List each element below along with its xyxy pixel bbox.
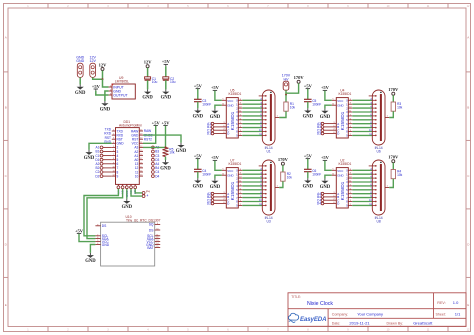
wire C2 to ground	[165, 80, 167, 89]
svg-text:GND: GND	[84, 156, 95, 161]
power flag +5V at U5	[211, 85, 220, 92]
ground flag below R5	[160, 160, 171, 171]
net labels DD1 left inputs	[95, 146, 99, 179]
wire +5V to RTC VCC	[79, 234, 95, 242]
power flag +5V at U2	[321, 155, 330, 162]
wire +5V to C5	[307, 89, 309, 99]
wires U7 outputs to U3	[242, 170, 262, 205]
capacitor C5 100nF	[304, 99, 321, 106]
pin pads U5 inputs	[211, 122, 214, 135]
pin pads DD1 right	[152, 146, 155, 178]
net labels U2 inputs	[317, 192, 321, 206]
svg-text:+5V: +5V	[161, 120, 170, 125]
svg-text:8: 8	[113, 158, 114, 160]
svg-text:14: 14	[156, 243, 158, 245]
svg-text:1.0: 1.0	[453, 300, 459, 305]
svg-text:170V: 170V	[388, 155, 399, 160]
svg-text:D2: D2	[207, 202, 211, 206]
svg-text:20: 20	[140, 146, 142, 148]
svg-text:2019-11-21: 2019-11-21	[349, 321, 370, 326]
svg-text:REV:: REV:	[437, 301, 445, 305]
svg-text:+5V: +5V	[162, 59, 171, 64]
svg-text:GND: GND	[122, 205, 133, 210]
svg-text:10: 10	[113, 166, 115, 168]
svg-text:K155ID1: K155ID1	[339, 162, 352, 166]
ground flag below C2	[161, 89, 172, 100]
svg-text:D4: D4	[155, 174, 159, 178]
svg-text:+5V: +5V	[304, 83, 313, 88]
pin pads U2 inputs	[321, 192, 324, 205]
net flag 170V above R4	[388, 155, 399, 163]
svg-text:D2: D2	[95, 174, 99, 178]
svg-text:7: 7	[97, 234, 98, 236]
wire 12V to C1	[147, 68, 149, 77]
svg-text:13: 13	[140, 175, 142, 177]
junction 170V node	[285, 94, 287, 96]
wire +5V to U2 VCC	[325, 161, 332, 171]
svg-text:GND: GND	[161, 96, 172, 101]
svg-text:K155ID1: K155ID1	[229, 162, 242, 166]
wire +5V to U7 VCC	[215, 161, 222, 171]
svg-text:4: 4	[113, 142, 114, 144]
svg-text:9: 9	[117, 174, 119, 178]
svg-text:23: 23	[140, 134, 142, 136]
svg-text:GND: GND	[303, 115, 314, 120]
svg-text:+5V: +5V	[152, 120, 161, 125]
svg-text:15: 15	[156, 246, 158, 248]
svg-text:VCC: VCC	[337, 99, 343, 103]
net labels DD1 right	[155, 146, 159, 179]
svg-text:+5V: +5V	[321, 85, 330, 90]
svg-text:U1: U1	[266, 150, 270, 154]
svg-text:9: 9	[113, 162, 114, 164]
power flag +5V above C4	[194, 153, 203, 160]
svg-text:8: 8	[97, 224, 98, 226]
junction R5 top	[165, 146, 167, 148]
wire C3 to ground	[197, 102, 199, 109]
wire R3 to U6 anode	[389, 111, 393, 117]
connector P2 12V input	[89, 56, 96, 78]
svg-text:GND: GND	[337, 174, 343, 178]
svg-text:170V: 170V	[278, 157, 289, 162]
svg-text:+5V: +5V	[92, 84, 101, 89]
wire C1 to ground	[147, 80, 149, 89]
net flag 170V above R3	[388, 87, 399, 95]
svg-text:+5V: +5V	[194, 83, 203, 88]
wire DD1 GND2 to ground	[143, 135, 181, 143]
svg-text:4: 4	[97, 243, 98, 245]
net labels DD1 top left	[104, 128, 112, 144]
svg-text:100nF: 100nF	[312, 172, 321, 176]
power flag +5V at U9 output	[92, 84, 101, 91]
wire +5V down to R5	[165, 126, 167, 148]
capacitor C6 100nF	[304, 169, 321, 176]
svg-text:2: 2	[113, 134, 114, 136]
svg-text:GND: GND	[193, 115, 204, 120]
connector P4 buttons	[142, 190, 150, 198]
wire DD1 A3 to R5 top	[143, 146, 166, 148]
wires U2 outputs to U8	[352, 170, 372, 205]
wire R2 to U3 anode	[279, 181, 283, 187]
svg-text:U6: U6	[376, 150, 380, 154]
svg-text:10k: 10k	[397, 106, 403, 110]
svg-text:E: E	[467, 303, 469, 307]
wire +5V to C4	[197, 159, 199, 169]
svg-text:D4: D4	[317, 202, 321, 206]
labels U6	[375, 146, 383, 154]
svg-text:15: 15	[140, 166, 142, 168]
net labels U4 inputs	[317, 122, 321, 136]
wire +5V to C6	[307, 159, 309, 169]
power flag +5V to R5	[161, 120, 170, 127]
wire node to R1	[285, 95, 287, 102]
nixie tube U1 IN-14	[259, 90, 280, 145]
wire 12V node to U9 INPUT	[103, 79, 109, 87]
wire C4 to ground	[197, 172, 199, 179]
resistor R1 10k	[284, 102, 296, 111]
rtc U10 Tiny_i2c_RTC_DS1307	[95, 215, 160, 266]
svg-text:GND: GND	[320, 185, 331, 190]
wire U4 GND down	[325, 105, 332, 108]
svg-text:170V: 170V	[388, 87, 399, 92]
svg-text:14: 14	[140, 171, 142, 173]
ground flag below C1	[142, 89, 153, 100]
svg-text:10u: 10u	[170, 80, 176, 84]
ground flag below U2 GND	[320, 179, 331, 190]
svg-text:1: 1	[113, 130, 114, 132]
svg-text:10u: 10u	[152, 80, 158, 84]
svg-text:+5V: +5V	[211, 155, 220, 160]
driver U2 K155ID1	[324, 158, 352, 208]
svg-text:GND: GND	[85, 259, 96, 264]
wire R4 to U8 anode	[389, 179, 393, 188]
wire +5V to C3	[197, 89, 199, 99]
svg-text:12V: 12V	[99, 62, 108, 67]
capacitor C2 10u	[163, 77, 176, 84]
wire +5V to U4 VCC	[325, 91, 332, 101]
labels U1	[265, 146, 273, 154]
svg-text:10k: 10k	[290, 106, 296, 110]
pin pads U7 inputs	[211, 192, 214, 205]
svg-text:18: 18	[140, 154, 142, 156]
svg-text:Your Company: Your Company	[357, 311, 383, 316]
wire 170V to R4	[392, 163, 394, 170]
wire P1 to ground	[79, 77, 81, 84]
wire 12V flag down to node	[102, 71, 104, 80]
ground flag below U4 GND	[320, 109, 331, 120]
svg-text:+5V: +5V	[211, 85, 220, 90]
svg-text:16: 16	[140, 162, 142, 164]
svg-text:EasyEDA: EasyEDA	[300, 316, 326, 323]
svg-text:Nixie Clock: Nixie Clock	[307, 301, 333, 307]
power flag +5V above C3	[194, 83, 203, 90]
svg-text:D: D	[337, 132, 339, 136]
wire P4 pin2	[131, 189, 142, 196]
svg-text:GND: GND	[210, 185, 221, 190]
net flag 170V above R2	[278, 157, 289, 165]
net labels U5 inputs	[207, 122, 211, 136]
svg-text:10k: 10k	[169, 151, 175, 155]
svg-text:K155ID1: K155ID1	[339, 92, 352, 96]
pin pads U4 inputs	[321, 122, 324, 135]
svg-text:D: D	[227, 202, 229, 206]
svg-text:+5V: +5V	[194, 153, 203, 158]
power flag +5V above C2	[162, 59, 171, 66]
svg-text:DS: DS	[102, 224, 107, 228]
svg-text:9: 9	[157, 223, 158, 225]
svg-text:5: 5	[97, 240, 98, 242]
driver U5 K155ID1	[214, 88, 242, 138]
wire RTC GND	[90, 245, 95, 253]
svg-text:BAT: BAT	[147, 246, 153, 250]
svg-text:6: 6	[113, 150, 114, 152]
wire U7 GND down	[215, 175, 222, 178]
svg-text:VCC: VCC	[227, 99, 233, 103]
power flag +5V above C6	[304, 153, 313, 160]
svg-text:3: 3	[113, 138, 114, 140]
svg-text:TITLE:: TITLE:	[291, 295, 301, 299]
wire DD1 A5 to RTC SCL	[87, 189, 123, 239]
svg-text:B: B	[467, 106, 469, 110]
company text	[332, 311, 383, 316]
svg-text:GND: GND	[227, 174, 233, 178]
labels U8	[375, 216, 383, 224]
wire DD1 GND left	[89, 143, 112, 150]
pin pads DD1 bottom	[117, 186, 137, 189]
ground flag below U9	[100, 101, 111, 112]
wire +5V to U5 VCC	[215, 91, 222, 101]
svg-text:GND: GND	[160, 166, 171, 171]
svg-text:GND: GND	[176, 149, 187, 154]
power flag +5V at U4	[321, 85, 330, 92]
svg-text:A: A	[5, 36, 7, 40]
svg-text:10: 10	[156, 229, 158, 231]
svg-text:GND: GND	[320, 115, 331, 120]
svg-text:K155ID1: K155ID1	[229, 92, 242, 96]
svg-text:12V: 12V	[144, 60, 153, 65]
ground flag below C5	[303, 108, 314, 119]
svg-text:+5V: +5V	[321, 155, 330, 160]
resistor R2 10k	[281, 172, 293, 181]
svg-text:100nF: 100nF	[202, 172, 211, 176]
svg-text:GND: GND	[227, 104, 233, 108]
svg-text:Sheet:: Sheet:	[436, 312, 446, 316]
svg-text:U8: U8	[376, 220, 380, 224]
ground flag below P1	[75, 85, 86, 96]
ground flag below C6	[303, 178, 314, 189]
svg-text:GND: GND	[142, 96, 153, 101]
wire +5V to C2	[165, 66, 167, 77]
ground flag below U7 GND	[210, 179, 221, 190]
nixie tube U3 IN-14	[259, 160, 280, 215]
labels U3	[265, 216, 273, 224]
svg-text:LM7805L: LM7805L	[115, 80, 129, 84]
net labels DD1 top right	[144, 129, 153, 141]
ground flag below DD1	[122, 199, 133, 210]
regulator U9 LM7805L	[109, 76, 136, 99]
svg-text:GND: GND	[337, 104, 343, 108]
svg-text:A: A	[467, 36, 469, 40]
svg-text:GND: GND	[193, 185, 204, 190]
junction node 12V	[102, 78, 104, 80]
title block	[288, 293, 466, 327]
net flag 12V at input node	[99, 62, 108, 70]
wire P2 to 12V node	[93, 77, 103, 79]
net flag 170V at HV node	[294, 75, 305, 83]
wire P4 pin1	[135, 189, 142, 193]
svg-text:13: 13	[156, 240, 158, 242]
svg-text:7: 7	[113, 154, 114, 156]
wire U2 GND down	[325, 175, 332, 178]
capacitor C3 100nF	[194, 99, 211, 106]
svg-text:U3: U3	[266, 220, 270, 224]
wire U5 GND down	[215, 105, 222, 108]
wire R5 to ground	[165, 157, 167, 160]
svg-text:19: 19	[140, 150, 142, 152]
svg-text:100nF: 100nF	[312, 102, 321, 106]
svg-text:+5V: +5V	[75, 228, 84, 233]
wire R1 to tube U1 anode	[279, 111, 286, 117]
ground flag below RTC	[85, 253, 96, 264]
wire +5V to VCC pin	[143, 126, 156, 144]
svg-text:ArduinoProMini: ArduinoProMini	[119, 123, 142, 127]
svg-text:D3: D3	[317, 132, 321, 136]
sheet text	[436, 311, 462, 316]
wire U9 GND down	[105, 91, 109, 101]
svg-text:6: 6	[97, 237, 98, 239]
svg-text:5: 5	[113, 146, 114, 148]
svg-text:GND: GND	[210, 115, 221, 120]
svg-text:10: 10	[135, 174, 139, 178]
svg-text:GND: GND	[100, 107, 111, 112]
easyeda logo	[289, 313, 327, 323]
svg-text:GND: GND	[76, 59, 84, 63]
svg-text:GND: GND	[75, 91, 86, 96]
svg-text:22: 22	[140, 138, 142, 140]
wire HV connector down to node	[285, 90, 287, 95]
svg-text:11: 11	[156, 234, 158, 236]
wire C5 to ground	[307, 102, 309, 109]
wire DD1 bottom GND	[126, 189, 128, 199]
power flag +5V at RTC	[75, 228, 84, 235]
wires U5 outputs to U1	[242, 100, 262, 135]
svg-text:17: 17	[140, 158, 142, 160]
capacitor C4 100nF	[194, 169, 211, 176]
power flag +5V above C5	[304, 83, 313, 90]
wire +5V to U9 OUTPUT	[96, 91, 109, 95]
svg-text:Company:: Company:	[332, 312, 348, 316]
svg-text:VCC: VCC	[227, 169, 233, 173]
ground flag below C3	[193, 108, 204, 119]
svg-text:D1: D1	[207, 132, 211, 136]
svg-text:10k: 10k	[287, 176, 293, 180]
ground flag left of DD1	[84, 150, 95, 161]
capacitor C1 10u	[145, 77, 158, 84]
ground flag below U5 GND	[210, 109, 221, 120]
wire 170V to R3	[392, 95, 394, 102]
ground flag below C4	[193, 178, 204, 189]
svg-text:Date:: Date:	[332, 322, 341, 326]
resistor R3 10k	[391, 102, 403, 111]
svg-text:10k: 10k	[397, 173, 403, 177]
svg-text:D: D	[227, 132, 229, 136]
svg-text:24: 24	[140, 130, 142, 132]
driver U7 K155ID1	[214, 158, 242, 208]
power flag +5V to DD1 VCC	[152, 120, 161, 127]
connector P1 GND input	[76, 56, 84, 78]
rev text	[437, 300, 459, 305]
svg-text:170V: 170V	[294, 75, 305, 80]
svg-text:HV: HV	[284, 77, 290, 81]
svg-text:B: B	[5, 106, 7, 110]
wire 170V to R2	[282, 165, 284, 172]
svg-text:RST2: RST2	[144, 137, 152, 141]
pin pads DD1 left	[100, 146, 112, 178]
svg-text:GND: GND	[303, 185, 314, 190]
nixie tube U6 IN-14	[369, 90, 390, 145]
mcu DD1 ArduinoProMini	[112, 120, 143, 197]
svg-text:GreatScott: GreatScott	[413, 321, 433, 326]
svg-text:VCC: VCC	[337, 169, 343, 173]
resistor R5 10k	[163, 147, 175, 156]
nixie tube U8 IN-14	[369, 160, 390, 215]
svg-text:21: 21	[140, 142, 142, 144]
svg-text:GND: GND	[102, 243, 110, 247]
driver U4 K155ID1	[324, 88, 352, 138]
svg-text:DS: DS	[149, 228, 154, 232]
connector P3 170V HV input	[282, 74, 291, 91]
svg-text:OUTPUT: OUTPUT	[113, 94, 128, 98]
svg-text:Drawn By:: Drawn By:	[387, 322, 404, 326]
svg-text:12V: 12V	[89, 59, 96, 63]
resistor R4 10k	[391, 170, 403, 179]
svg-text:12: 12	[156, 237, 158, 239]
power flag +5V at U7	[211, 155, 220, 162]
net labels U7 inputs	[207, 192, 211, 206]
wires U4 outputs to U6	[352, 100, 372, 135]
svg-text:+5V: +5V	[304, 153, 313, 158]
svg-text:D: D	[337, 202, 339, 206]
svg-text:12: 12	[113, 175, 115, 177]
svg-text:100nF: 100nF	[202, 102, 211, 106]
wire 170V flag to node	[286, 83, 299, 95]
svg-text:11: 11	[113, 171, 115, 173]
svg-text:1/1: 1/1	[455, 311, 461, 316]
svg-text:SQ: SQ	[149, 223, 154, 227]
svg-text:E: E	[5, 303, 7, 307]
ground flag right of DD1	[176, 143, 187, 154]
date drawn-by text	[332, 321, 433, 326]
wire C6 to ground	[307, 172, 309, 179]
wire DD1 A4 to RTC SDA	[84, 189, 118, 236]
net flag 12V above C1	[144, 60, 153, 68]
title text	[291, 295, 333, 307]
